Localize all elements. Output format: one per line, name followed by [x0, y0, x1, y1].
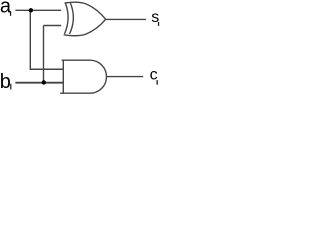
- svg-text:c: c: [150, 66, 158, 83]
- wire riser B (b up to XOR lower input): [43, 26, 45, 83]
- junction dot on a: [29, 8, 33, 12]
- wire b input: [15, 82, 63, 84]
- label b subscript i: [10, 84, 11, 90]
- and-gate U2 top edge: [62, 59, 90, 61]
- and-gate U2 bottom edge: [60, 92, 90, 94]
- wire a input: [15, 9, 61, 11]
- and-gate U2 left edge: [62, 60, 64, 94]
- label s subscript i: [158, 22, 159, 26]
- label c subscript i: [157, 80, 158, 85]
- junction dot on b: [42, 80, 46, 84]
- wire H2 (b into XOR lower input): [44, 25, 62, 27]
- wire AND output to c: [106, 76, 143, 78]
- xor-gate U1 body back arc: [70, 3, 74, 34]
- wire H1 (a into AND upper input): [30, 68, 64, 70]
- label a subscript i: [10, 12, 11, 16]
- wire riser A (a down to AND upper input): [29, 10, 31, 69]
- xor-gate U1 bottom hull: [64, 19, 106, 35]
- svg-text:b: b: [0, 71, 11, 93]
- and-gate U2 D arc: [90, 60, 106, 93]
- xor-gate U1 front arc: [65, 3, 69, 34]
- wire XOR output to s: [106, 18, 146, 20]
- xor-gate U1 top hull: [65, 2, 106, 19]
